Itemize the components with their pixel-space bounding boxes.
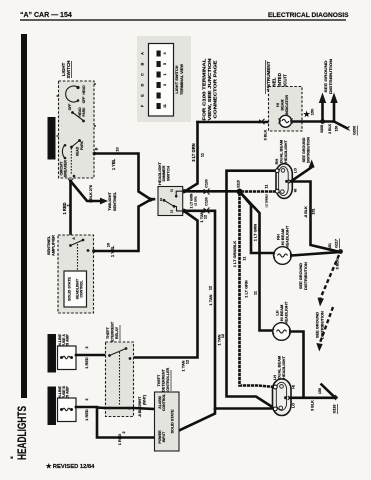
svg-text:DETERRENT: DETERRENT <box>111 321 115 344</box>
svg-text:2: 2 <box>85 398 89 400</box>
sentinel amplifier box <box>58 235 94 313</box>
svg-text:4: 4 <box>163 52 167 54</box>
wire lh hi ground down <box>290 332 303 398</box>
svg-text:3 BLK: 3 BLK <box>336 258 340 269</box>
svg-text:SOLID STATE: SOLID STATE <box>68 277 72 301</box>
svg-text:B: B <box>141 62 145 65</box>
svg-text:(WHT): (WHT) <box>143 395 147 405</box>
ground point G117 <box>338 249 343 254</box>
wire 1 YEL light switch to dimmer <box>94 154 154 200</box>
sentinel relay contact <box>71 240 84 246</box>
terminal view cavities <box>157 51 161 110</box>
light switch box <box>59 81 95 178</box>
svg-text:CONNECTOR PAGE: CONNECTOR PAGE <box>213 61 218 119</box>
svg-text:HEADLIGHT: HEADLIGHT <box>285 225 290 248</box>
svg-text:PARK: PARK <box>82 107 86 117</box>
svg-text:BEAM: BEAM <box>281 100 285 111</box>
wire lh dual ground <box>290 396 335 399</box>
svg-text:DISTRIBUTION: DISTRIBUTION <box>320 311 325 339</box>
headlight dimmer switch box <box>158 187 183 216</box>
ground arrow stub 2 <box>333 102 336 122</box>
svg-text:S208: S208 <box>320 125 324 133</box>
svg-text:PARK: PARK <box>80 140 84 150</box>
svg-text:ELECTRICAL DIAGNOSIS: ELECTRICAL DIAGNOSIS <box>268 12 349 19</box>
svg-text:HOT AT ALL TIMES: HOT AT ALL TIMES <box>50 388 54 423</box>
connector C100 on lo row <box>204 208 209 214</box>
hi beam indicator box <box>269 87 303 132</box>
svg-text:10: 10 <box>106 243 111 247</box>
ground stub diag <box>322 385 336 398</box>
svg-text:CONTROLLER: CONTROLLER <box>166 367 170 393</box>
ground G116 <box>335 395 338 400</box>
svg-text:1 LT GRN: 1 LT GRN <box>244 280 249 298</box>
sentinel solid state box <box>64 271 87 307</box>
svg-text:FOR C100 TERMINAL: FOR C100 TERMINAL <box>202 58 207 120</box>
svg-text:RELAY: RELAY <box>115 326 119 339</box>
svg-text:1 BLK 276: 1 BLK 276 <box>89 185 93 203</box>
hot at all times (top) <box>48 117 56 160</box>
svg-text:A: A <box>141 52 145 55</box>
hi beam indicator bulb <box>280 115 292 127</box>
svg-text:OFF: OFF <box>68 104 72 111</box>
svg-text:DISTRIBUTION: DISTRIBUTION <box>328 59 333 94</box>
svg-text:1 LT GRN/BLK: 1 LT GRN/BLK <box>265 194 269 208</box>
svg-text:1 RED: 1 RED <box>84 409 89 421</box>
wire rh dual ground to G117 <box>291 182 338 252</box>
svg-text:HEADLIGHT: HEADLIGHT <box>283 140 288 163</box>
terminal view pin numbers <box>163 52 167 107</box>
svg-text:HEADLIGHT: HEADLIGHT <box>284 301 289 324</box>
splice S208 <box>320 119 325 124</box>
svg-text:151: 151 <box>328 243 332 249</box>
svg-text:1 LT GRN/BLK: 1 LT GRN/BLK <box>232 241 237 268</box>
svg-text:SWITCH: SWITCH <box>165 166 170 182</box>
svg-text:CONTROL: CONTROL <box>162 393 166 411</box>
svg-text:HI: HI <box>276 103 280 107</box>
svg-text:TERMINAL VIEW: TERMINAL VIEW <box>179 64 184 95</box>
wire 3 LT GRN dimmer to hi beam feed <box>185 122 198 191</box>
wire rh dual ground arrow <box>292 167 312 181</box>
svg-text:S115: S115 <box>237 180 241 188</box>
svg-text:150: 150 <box>334 126 338 132</box>
svg-text:G117: G117 <box>335 239 339 248</box>
svg-text:3 BLK: 3 BLK <box>311 400 315 411</box>
circuit breaker symbol <box>62 145 64 158</box>
wire hi beam indicator feed <box>198 121 279 124</box>
svg-text:CONTROL: CONTROL <box>80 279 84 297</box>
svg-text:3 LT GRN: 3 LT GRN <box>191 143 196 161</box>
svg-text:1 TAN: 1 TAN <box>208 294 213 305</box>
svg-text:1 RED: 1 RED <box>62 202 67 214</box>
svg-text:2: 2 <box>85 346 89 348</box>
svg-text:10: 10 <box>115 147 120 151</box>
wire fuse A to theft relay <box>76 354 106 357</box>
light switch contact head-park 1 <box>72 112 84 121</box>
svg-text:11: 11 <box>265 185 269 189</box>
svg-text:HEAD: HEAD <box>82 85 86 95</box>
svg-text:12: 12 <box>186 360 190 364</box>
RH hi beam headlight <box>274 247 292 265</box>
svg-text:SENTINEL: SENTINEL <box>112 191 117 211</box>
svg-text:HEAD: HEAD <box>76 146 80 156</box>
dashed ground pointer 1 <box>321 255 340 298</box>
LH dual beam headlight <box>273 379 292 416</box>
svg-text:HEADLIGHT: HEADLIGHT <box>281 356 286 379</box>
in-line fuse A <box>58 346 77 370</box>
svg-text:11: 11 <box>163 104 167 108</box>
wire dimmer hi output node row <box>184 190 240 193</box>
ground arrow stub 1 <box>321 102 324 122</box>
connector C100 on hi row <box>204 189 209 195</box>
svg-text:LO: LO <box>294 168 298 173</box>
wire 1 RED light switch to sentinel amp <box>69 181 72 234</box>
wire 1 YEL sentinel amp to dimmer <box>94 200 151 251</box>
wire rh hi ground to G117 <box>291 252 339 256</box>
wire 1 TAN stub to theft controller <box>179 409 215 431</box>
svg-text:DISTRIBUTION: DISTRIBUTION <box>303 262 308 290</box>
page mark bottom left <box>11 457 14 459</box>
wire node to LH hi beam <box>240 192 272 331</box>
hot at all times (fuse A) <box>48 334 57 373</box>
svg-text:LO: LO <box>292 403 296 408</box>
svg-text:DETERRENT: DETERRENT <box>162 368 166 391</box>
svg-text:10: 10 <box>159 198 163 202</box>
svg-text:150: 150 <box>310 109 315 116</box>
svg-text:151: 151 <box>312 208 316 214</box>
svg-text:HI: HI <box>294 189 298 193</box>
connector mark at indicator feed <box>259 119 263 124</box>
light switch right edge ticks <box>94 83 96 85</box>
svg-text:3 BLK: 3 BLK <box>264 129 268 140</box>
svg-text:“A” CAR — 154: “A” CAR — 154 <box>20 12 72 19</box>
svg-text:1 RED: 1 RED <box>84 357 89 369</box>
svg-text:VIEW, SEE JUNCTION: VIEW, SEE JUNCTION <box>207 59 212 121</box>
wire relay pass-through coil <box>106 408 155 409</box>
connector mark sentinel output <box>94 249 98 254</box>
svg-text:.8 BLK: .8 BLK <box>304 206 308 218</box>
svg-text:THEFT: THEFT <box>106 326 110 339</box>
svg-text:25 AMP: 25 AMP <box>66 386 70 399</box>
svg-text:HEADLIGHTS: HEADLIGHTS <box>17 406 29 460</box>
connector mark light switch output <box>94 151 98 156</box>
svg-text:C: C <box>141 73 145 76</box>
terminal view pin letters <box>141 52 145 107</box>
svg-text:OFF: OFF <box>82 97 86 104</box>
svg-text:11: 11 <box>254 291 258 295</box>
svg-text:D: D <box>141 83 145 86</box>
svg-text:.8 BLK/WHT: .8 BLK/WHT <box>138 396 142 417</box>
dashed ground pointer 2 <box>320 307 334 344</box>
svg-text:11: 11 <box>170 189 174 192</box>
svg-text:12: 12 <box>209 286 213 290</box>
svg-text:G200: G200 <box>353 126 357 135</box>
svg-text:HOT AT ALL TIMES: HOT AT ALL TIMES <box>50 335 54 370</box>
svg-text:INDICATOR: INDICATOR <box>285 95 289 115</box>
svg-text:12: 12 <box>221 334 225 338</box>
theft deterrent controller box <box>155 392 180 451</box>
svg-text:SEE GROUND: SEE GROUND <box>302 137 306 162</box>
svg-text:3: 3 <box>163 84 167 86</box>
svg-text:AMPLIFIER: AMPLIFIER <box>51 235 56 256</box>
light switch contact head-park 2 <box>72 141 80 148</box>
left margin tab bar <box>21 34 27 398</box>
svg-text:12: 12 <box>204 215 208 219</box>
connector mark dimmer input <box>150 197 155 202</box>
svg-text:HI: HI <box>292 385 296 389</box>
wire fuse B split <box>76 407 155 438</box>
svg-text:SOLID STATE: SOLID STATE <box>171 409 175 433</box>
svg-text:THEFT: THEFT <box>157 374 161 387</box>
svg-text:DISTRIBUTION: DISTRIBUTION <box>307 137 311 164</box>
LH hi beam headlight <box>273 323 291 341</box>
svg-text:2 BLK: 2 BLK <box>328 123 332 133</box>
svg-text:1: 1 <box>163 73 167 75</box>
hot at all times (fuse B) <box>48 387 57 426</box>
svg-text:1 RED: 1 RED <box>117 434 122 446</box>
in-line fuse B <box>58 398 77 422</box>
svg-text:BREAKER: BREAKER <box>63 160 67 177</box>
svg-text:2: 2 <box>67 204 71 206</box>
svg-text:1 YEL: 1 YEL <box>111 158 116 170</box>
relay contact <box>110 349 127 356</box>
svg-text:INPUT: INPUT <box>162 431 166 442</box>
wire striped trunk to LH dual hi <box>240 192 274 387</box>
terminal view connector box <box>149 44 174 117</box>
svg-text:11: 11 <box>243 257 247 261</box>
light switch head-off arc contact <box>66 86 78 102</box>
svg-text:G116: G116 <box>333 405 337 414</box>
wire striped to RH dual hi terminal <box>240 190 276 193</box>
light switch terminal view gray panel <box>137 36 191 122</box>
svg-text:2: 2 <box>122 431 126 433</box>
RH dual beam headlight <box>276 164 292 199</box>
svg-text:★ REVISED 12/84: ★ REVISED 12/84 <box>46 463 95 470</box>
svg-text:SWITCH: SWITCH <box>66 61 71 79</box>
splice node S115 <box>237 189 243 195</box>
svg-text:25 AMP: 25 AMP <box>66 334 70 347</box>
svg-text:C100: C100 <box>205 197 209 205</box>
wire indicator to ground splice <box>293 122 347 129</box>
svg-text:C100: C100 <box>205 179 209 187</box>
dimmer contact <box>164 200 174 206</box>
theft deterrent relay box <box>106 342 134 417</box>
wire 1 BLK 276 to twilight sentinel arrow <box>68 179 73 182</box>
ground G200 <box>347 126 349 130</box>
svg-text:HOT AT ALL TIMES: HOT AT ALL TIMES <box>49 120 54 156</box>
header rule <box>20 19 346 20</box>
light switch left terminal ticks <box>57 95 59 97</box>
wire 1 TAN dimmer lo output row <box>184 211 273 409</box>
svg-text:1 YEL: 1 YEL <box>110 245 115 257</box>
svg-text:12: 12 <box>170 210 174 214</box>
wire lo loop rh dual to lh dual <box>227 171 276 408</box>
svg-text:5: 5 <box>163 63 167 65</box>
wire node to RH hi beam <box>240 192 273 254</box>
wire 1 TAN branch to theft relay junction <box>134 211 198 358</box>
svg-text:150: 150 <box>318 388 322 394</box>
svg-text:(2 DR): (2 DR) <box>194 196 198 205</box>
